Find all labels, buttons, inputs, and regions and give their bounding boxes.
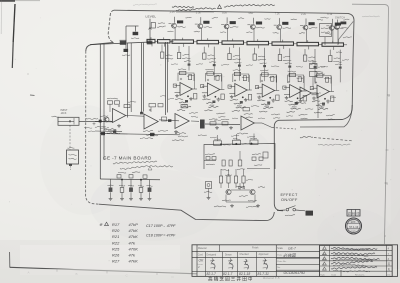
capacitor C14 band network <box>278 48 291 81</box>
svg-text:中: 中 <box>248 276 253 283</box>
potentiometer VR7 slider <box>272 40 297 49</box>
note parts list <box>99 222 176 264</box>
svg-text:EFFECT: EFFECT <box>281 193 298 197</box>
title block texts <box>198 247 287 270</box>
svg-text:Designed: Designed <box>207 255 217 257</box>
potentiometer VR4 slider <box>197 38 222 47</box>
paper lower wash <box>0 269 400 283</box>
capacitor C32 supply filter <box>128 179 134 200</box>
label LEVEL <box>146 15 157 19</box>
transistor Q7 band buffer <box>325 19 349 43</box>
svg-text:1.25: 1.25 <box>170 10 176 14</box>
svg-text:7.2k: 7.2k <box>275 11 281 15</box>
transistor Q10 Q11 flip-flop <box>220 143 268 202</box>
wire bypass loop <box>204 134 275 170</box>
label freq band 7 <box>327 12 333 16</box>
svg-text:INPUT: INPUT <box>61 110 68 112</box>
svg-text:必修図: 必修図 <box>283 253 296 258</box>
title block entries <box>263 247 305 280</box>
svg-text:82.1-7: 82.1-7 <box>223 272 233 276</box>
svg-text:→ 47PF: → 47PF <box>162 224 176 228</box>
svg-text:6.3k: 6.3k <box>327 12 333 16</box>
svg-text:47kK: 47kK <box>129 234 139 239</box>
svg-text:Sym.: Sym. <box>320 274 325 276</box>
resistor R30 output divider <box>310 60 325 87</box>
capacitor C12 band network <box>228 47 242 81</box>
op-amp IC3 gyrator <box>228 70 253 118</box>
capacitor C11 band network <box>203 47 217 81</box>
switch SW1 footswitch <box>277 206 313 216</box>
op-amp IC5 gyrator <box>283 71 308 119</box>
capacitor C9 band network <box>161 45 174 63</box>
svg-text:R27: R27 <box>112 259 120 264</box>
transistor Q9 input buffer <box>100 117 112 129</box>
stamp date seal <box>346 218 362 234</box>
battery BT1 9V <box>67 147 79 170</box>
svg-text:R22: R22 <box>112 240 120 245</box>
stray marks left <box>28 74 35 96</box>
svg-text:R17: R17 <box>112 222 120 227</box>
resistor R1 block <box>120 40 153 45</box>
title block frame <box>192 245 398 277</box>
left margin line <box>12 4 15 68</box>
transistor Q2 band buffer <box>194 17 218 40</box>
svg-text:4558: 4558 <box>292 106 298 109</box>
note board handwriting <box>113 161 173 170</box>
svg-text:資: 資 <box>348 211 351 216</box>
transistor Q3 band buffer <box>220 17 244 41</box>
network bypass inner <box>204 151 270 171</box>
svg-text:C18 100P = 47PF: C18 100P = 47PF <box>146 234 176 238</box>
svg-text:4558: 4558 <box>182 104 188 107</box>
svg-text:45a: 45a <box>248 11 253 15</box>
label IC6 value <box>319 106 325 109</box>
label IC5 value <box>292 106 298 109</box>
svg-text:Roland T-5: Roland T-5 <box>263 276 280 280</box>
sheet border bottom <box>10 252 198 279</box>
op-amp IC4 gyrator <box>255 70 280 118</box>
resistor chain bypass <box>214 138 259 145</box>
svg-text:ON/OFF: ON/OFF <box>281 198 298 202</box>
wire dashed to output <box>262 123 296 129</box>
transistor Q6 band buffer <box>299 18 323 42</box>
op-amp IC8 buffer <box>95 101 144 133</box>
label freq band 1 <box>170 10 176 14</box>
svg-text:No.: No. <box>277 267 281 269</box>
sheet border right <box>352 4 390 244</box>
potentiometer VR8 slider <box>297 40 322 49</box>
potentiometer VR8 LEVEL <box>149 19 166 42</box>
relay K1 box <box>320 17 332 45</box>
paper edge left <box>0 0 2 34</box>
capacitor C30 supply filter <box>108 179 114 200</box>
op-amp IC2 gyrator <box>201 69 226 117</box>
svg-text:47kK: 47kK <box>129 228 139 233</box>
board outline <box>86 10 354 220</box>
wire pair A <box>128 43 132 118</box>
capacitor C15 band network <box>303 49 316 82</box>
wire battery <box>69 125 71 150</box>
potentiometer VR9 slider <box>322 41 347 50</box>
op-amp IC1 gyrator <box>173 69 198 117</box>
stamp box <box>347 210 360 217</box>
svg-text:Chk: Chk <box>387 274 391 276</box>
svg-text:Finish: Finish <box>252 247 259 250</box>
svg-text:JACK: JACK <box>61 112 67 115</box>
svg-text:橋: 橋 <box>214 276 219 283</box>
transistor Q1 band buffer <box>168 17 192 40</box>
svg-text:Scale: Scale <box>277 248 283 250</box>
svg-text:LEVEL: LEVEL <box>146 15 157 19</box>
svg-text:Dwg.: Dwg. <box>277 254 282 256</box>
paper edge top left <box>0 0 40 2</box>
op-amp IC9 driver <box>99 104 179 139</box>
svg-text:2: 2 <box>197 265 200 269</box>
wire bus left pair <box>100 44 104 179</box>
svg-text:三: 三 <box>231 277 236 282</box>
wire input <box>79 118 113 127</box>
svg-text:B0a: B0a <box>222 11 227 15</box>
misc component labels <box>84 52 349 138</box>
svg-text:高: 高 <box>208 276 213 283</box>
potentiometer VR3 slider <box>172 38 197 47</box>
transistor Q8 switch <box>334 16 379 45</box>
svg-text:47kP: 47kP <box>129 222 139 227</box>
label freq band 5 <box>275 11 281 15</box>
wire pair C <box>166 42 168 115</box>
op-amp IC11 mixer <box>237 106 262 134</box>
svg-text:印: 印 <box>356 211 359 216</box>
capacitor C20 output coupling <box>198 120 207 136</box>
capacitor C1 electrolytic <box>131 32 139 39</box>
capacitor C33 supply filter <box>138 179 144 200</box>
capacitor C16 band network <box>329 50 342 83</box>
svg-text:470K: 470K <box>129 246 139 251</box>
potentiometer VR1 slider <box>147 37 159 46</box>
svg-text:Date: Date <box>332 273 337 276</box>
label GE-7 MAIN BOARD <box>103 156 152 161</box>
svg-text:47k: 47k <box>129 253 137 258</box>
svg-text:井: 井 <box>237 276 242 283</box>
op-amp IC10 summing <box>172 105 199 141</box>
wire power rail <box>100 130 180 136</box>
wire main top bus <box>90 42 147 44</box>
svg-text:C17 100P: C17 100P <box>146 224 163 228</box>
capacitor C10 band network <box>177 46 191 71</box>
svg-text:82.1-7: 82.1-7 <box>207 272 217 276</box>
svg-text:47k: 47k <box>129 240 137 245</box>
svg-text:受付: 受付 <box>351 219 357 223</box>
svg-text:R20: R20 <box>112 228 120 233</box>
svg-text:料: 料 <box>352 211 355 216</box>
resistor R43 flipflop <box>242 169 245 188</box>
label IC4 value <box>264 105 270 108</box>
op-amp IC6 gyrator <box>310 72 335 120</box>
capacitor C13 band network <box>253 48 266 81</box>
svg-text:4558: 4558 <box>209 104 215 107</box>
revision table frame <box>320 245 393 276</box>
input jack J1 <box>52 110 80 126</box>
svg-text:OK: OK <box>199 259 205 263</box>
svg-text:4558: 4558 <box>319 106 325 109</box>
svg-text:Material: Material <box>198 247 207 250</box>
label freq band 6 <box>301 12 307 16</box>
svg-text:GE -7 MAIN BOARD: GE -7 MAIN BOARD <box>103 156 152 161</box>
diode D3 supply row <box>117 172 147 181</box>
potentiometer VR2 slider <box>158 37 174 46</box>
wire level feed <box>126 26 139 42</box>
LED D1 indicator <box>204 182 212 200</box>
revision table rows <box>320 247 390 277</box>
svg-text:82.1-18: 82.1-18 <box>239 272 250 276</box>
svg-text:4558: 4558 <box>264 105 270 108</box>
transistor Q4 band buffer <box>246 18 270 42</box>
transistor Q5 band buffer <box>273 18 297 42</box>
label EFFECT ON/OFF <box>281 193 299 202</box>
note ECN revision triangle <box>218 4 275 8</box>
resistor R40 flipflop <box>219 169 222 188</box>
svg-text:Revisions: Revisions <box>355 274 365 276</box>
potentiometer VR5 slider <box>222 39 247 48</box>
resistor R2 bias pair <box>100 98 120 116</box>
svg-text:Drawn: Drawn <box>225 253 232 256</box>
svg-text:雨: 雨 <box>388 263 391 266</box>
label IC2 value <box>209 104 215 107</box>
label freq band 2 <box>196 10 202 14</box>
svg-text:4558: 4558 <box>237 105 243 108</box>
title block stamp row <box>208 276 253 283</box>
svg-text:GE-7: GE-7 <box>288 247 296 251</box>
resistor R41 flipflop <box>227 169 230 188</box>
wire supply bus <box>100 178 160 181</box>
svg-text:芝: 芝 <box>219 276 224 283</box>
svg-text:57.1.13: 57.1.13 <box>349 225 358 229</box>
resistor R42 flipflop <box>234 169 237 188</box>
svg-text:Checked: Checked <box>240 254 250 256</box>
svg-text:OCC8261791: OCC8261791 <box>284 271 305 275</box>
note ECN-2742 <box>172 6 216 12</box>
capacitor C2 <box>122 44 130 55</box>
svg-text:済印: 済印 <box>351 230 357 234</box>
op-amp IC12 output <box>295 87 321 118</box>
label freq band 4 <box>248 11 253 15</box>
svg-text:Approved: Approved <box>259 253 270 256</box>
label freq band 3 <box>222 11 227 15</box>
svg-text:2.2k: 2.2k <box>301 12 307 16</box>
title block signatures <box>197 259 269 277</box>
svg-text:SWITCH: SWITCH <box>335 17 345 20</box>
svg-text:R21: R21 <box>112 234 119 239</box>
svg-text:R25: R25 <box>112 246 120 251</box>
label IC3 value <box>237 105 243 108</box>
svg-text:Parts No.: Parts No. <box>277 260 287 263</box>
resistor network mix <box>205 119 240 130</box>
svg-text:Cord: Cord <box>198 253 204 256</box>
potentiometer VR6 slider <box>247 39 272 48</box>
capacitor C31 supply filter <box>119 179 125 200</box>
wire OUTPUT <box>300 136 352 145</box>
svg-text:馬: 馬 <box>388 267 391 271</box>
note ECN top left faint <box>133 4 157 5</box>
svg-text:2.5k: 2.5k <box>196 10 202 14</box>
svg-text:47kK: 47kK <box>129 259 139 264</box>
label SWITCH <box>335 17 345 20</box>
diode D2 steering <box>214 183 260 208</box>
wire pair B <box>142 43 144 113</box>
capacitor C34 supply filter <box>147 179 153 200</box>
svg-text:R26: R26 <box>112 253 120 258</box>
label IC1 value <box>182 104 188 107</box>
